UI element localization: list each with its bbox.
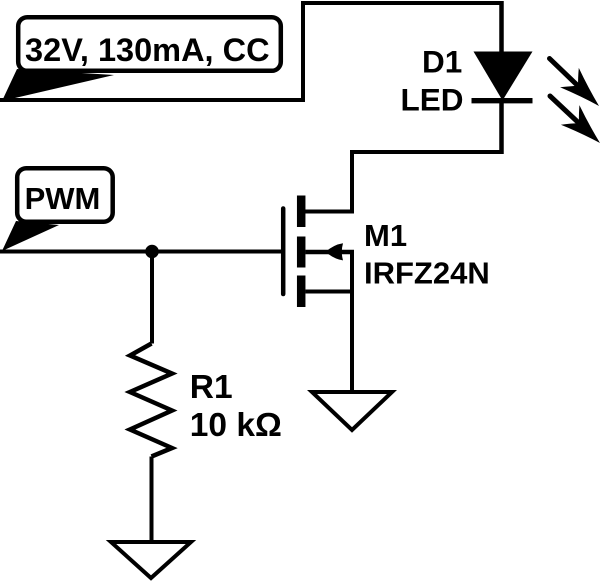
svg-text:IRFZ24N: IRFZ24N (364, 256, 490, 291)
svg-text:R1: R1 (190, 369, 233, 406)
svg-text:LED: LED (401, 82, 464, 118)
svg-text:10 kΩ: 10 kΩ (190, 407, 282, 444)
svg-text:M1: M1 (364, 218, 407, 253)
svg-text:32V, 130mA, CC: 32V, 130mA, CC (25, 32, 270, 68)
svg-text:PWM: PWM (25, 181, 101, 216)
svg-text:D1: D1 (422, 44, 462, 80)
